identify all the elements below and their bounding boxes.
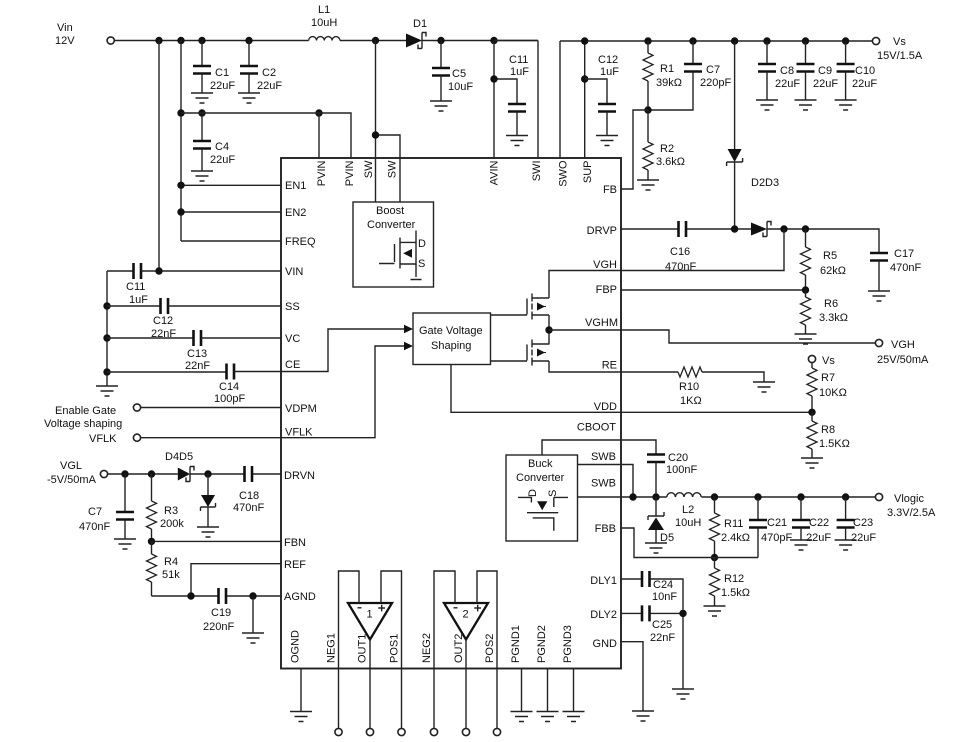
resistor R11 xyxy=(710,497,751,558)
wire FBN xyxy=(152,540,282,542)
svg-text:PGND3: PGND3 xyxy=(562,625,574,663)
node VGL label xyxy=(47,460,97,486)
terminal OUT2 xyxy=(462,728,469,735)
IC U1 main body xyxy=(281,158,621,669)
svg-text:Gate Voltage: Gate Voltage xyxy=(419,325,483,337)
svg-text:1.5KΩ: 1.5KΩ xyxy=(819,438,850,450)
wire OGND xyxy=(300,669,302,712)
svg-text:R1: R1 xyxy=(660,63,674,75)
svg-text:C17: C17 xyxy=(894,248,914,260)
wire VFLK to GVS xyxy=(281,346,404,438)
svg-text:CBOOT: CBOOT xyxy=(577,422,616,434)
svg-text:VGHM: VGHM xyxy=(585,317,618,329)
svg-text:C11: C11 xyxy=(509,54,528,66)
capacitor C24 xyxy=(642,571,677,603)
svg-text:R12: R12 xyxy=(724,573,744,585)
wire GVS gate1 xyxy=(491,314,528,316)
pin labels right edge xyxy=(577,184,618,650)
ground C11 top xyxy=(506,136,528,146)
ground C10 xyxy=(835,100,857,110)
wire DLY1 xyxy=(621,579,683,606)
wire VGHM row xyxy=(549,329,621,331)
svg-text:22uF: 22uF xyxy=(806,532,831,544)
terminal Vs xyxy=(872,36,923,62)
svg-text:39kΩ: 39kΩ xyxy=(656,77,682,89)
svg-text:C7: C7 xyxy=(706,64,720,76)
node FB divider junction xyxy=(644,106,651,113)
svg-text:470nF: 470nF xyxy=(79,521,110,533)
svg-text:DLY1: DLY1 xyxy=(590,575,617,587)
terminal NEG1 xyxy=(335,728,342,735)
resistor R6 xyxy=(801,290,849,334)
resistor R2 xyxy=(643,110,685,180)
ground DLY xyxy=(672,689,694,699)
node AVIN junction xyxy=(490,75,497,82)
svg-text:100pF: 100pF xyxy=(214,393,245,405)
svg-text:C20: C20 xyxy=(668,452,688,464)
svg-text:10nF: 10nF xyxy=(652,591,677,603)
terminal VDPM xyxy=(133,404,140,411)
wire POS2 xyxy=(477,571,497,728)
svg-text:R7: R7 xyxy=(821,372,835,384)
capacitor C25 xyxy=(642,605,675,644)
block Boost Converter box xyxy=(353,202,434,287)
ground C7 xyxy=(114,539,136,549)
svg-text:VGL: VGL xyxy=(60,460,82,472)
transistor Q2 lower xyxy=(527,340,549,366)
svg-text:SUP: SUP xyxy=(582,161,594,184)
capacitor C7 220pF xyxy=(648,41,731,110)
svg-text:C12: C12 xyxy=(598,54,618,66)
svg-text:10uH: 10uH xyxy=(311,17,337,29)
wire PGND1 xyxy=(521,669,523,712)
node VGHM junction xyxy=(545,326,552,333)
wire DLY2 xyxy=(621,606,683,689)
diode D1 xyxy=(406,18,427,49)
capacitor C4 xyxy=(193,113,235,171)
node bus junctions xyxy=(103,302,110,375)
op-amp A1 xyxy=(348,603,392,640)
ground PGND2 xyxy=(537,712,559,722)
diode D5 buck xyxy=(648,497,674,544)
svg-text:3.3V/2.5A: 3.3V/2.5A xyxy=(887,507,936,519)
ground R10 xyxy=(753,382,775,392)
capacitor C20 xyxy=(647,452,697,497)
wire VGH to DRVP xyxy=(621,229,784,271)
ground C4 xyxy=(191,171,213,181)
capacitor C18 xyxy=(233,466,264,514)
svg-text:SWB: SWB xyxy=(591,478,616,490)
wire CBOOT xyxy=(542,440,656,455)
node SW junction xyxy=(372,131,379,138)
svg-text:1: 1 xyxy=(367,609,373,621)
terminal Vin xyxy=(107,37,114,44)
wire SUP riser xyxy=(584,41,586,158)
capacitor C21 xyxy=(749,497,792,558)
svg-text:22uF: 22uF xyxy=(210,80,235,92)
svg-text:22uF: 22uF xyxy=(813,78,838,90)
svg-text:SWO: SWO xyxy=(558,160,570,187)
terminal VGL xyxy=(100,470,107,477)
terminal VGH output xyxy=(875,339,929,366)
svg-text:R4: R4 xyxy=(164,556,178,568)
svg-text:D: D xyxy=(527,489,539,497)
node Vlogic rail junctions xyxy=(711,493,850,500)
wire SWB1 xyxy=(578,465,634,498)
svg-text:S: S xyxy=(418,258,425,270)
wire GND pin xyxy=(621,642,643,711)
ground R12 xyxy=(704,606,726,616)
svg-text:C24: C24 xyxy=(653,579,673,591)
wire FREQ xyxy=(181,240,281,242)
terminal OUT1 xyxy=(366,728,373,735)
capacitor C23 xyxy=(837,497,877,544)
diode D2 xyxy=(727,41,780,229)
op-amp A2 xyxy=(444,603,488,640)
wire POS1 xyxy=(381,571,402,728)
node EN2 junction xyxy=(177,208,184,215)
wire Vin rail top xyxy=(115,40,538,42)
wire AVIN riser xyxy=(493,41,495,159)
terminal POS1 xyxy=(398,728,405,735)
svg-text:EN1: EN1 xyxy=(285,180,306,192)
node AGND junctions xyxy=(187,592,256,599)
capacitor C14 100pF CE xyxy=(107,364,281,406)
svg-text:100nF: 100nF xyxy=(666,464,697,476)
svg-text:SWB: SWB xyxy=(591,451,616,463)
wire VFLK xyxy=(141,437,281,439)
svg-text:OUT2: OUT2 xyxy=(453,634,465,663)
svg-text:OUT1: OUT1 xyxy=(357,634,369,663)
svg-text:C2: C2 xyxy=(262,67,276,79)
resistor R4 xyxy=(147,541,181,596)
resistor R12 xyxy=(710,558,751,607)
node junction rail dots xyxy=(155,37,497,44)
diode D4 xyxy=(165,451,194,482)
node PVIN row junctions xyxy=(177,109,322,116)
svg-text:R5: R5 xyxy=(823,250,837,262)
svg-text:Vs: Vs xyxy=(893,36,906,48)
svg-text:3.6kΩ: 3.6kΩ xyxy=(656,156,685,168)
svg-text:C12: C12 xyxy=(153,315,173,327)
svg-text:D2D3: D2D3 xyxy=(751,177,779,189)
svg-text:1uF: 1uF xyxy=(600,66,619,78)
svg-text:C9: C9 xyxy=(818,65,832,77)
svg-text:C8: C8 xyxy=(780,65,794,77)
wire SWI riser xyxy=(494,41,538,159)
svg-text:C19: C19 xyxy=(211,607,231,619)
resistor R7 xyxy=(807,363,847,412)
svg-text:22nF: 22nF xyxy=(650,632,675,644)
svg-text:AGND: AGND xyxy=(284,591,316,603)
wire SWB2 rail xyxy=(578,496,876,498)
svg-text:DRVN: DRVN xyxy=(284,470,315,482)
diode D3 xyxy=(751,222,771,237)
ground PGND3 xyxy=(563,712,585,722)
terminal VFLK xyxy=(133,434,140,441)
svg-text:25V/50mA: 25V/50mA xyxy=(877,354,929,366)
svg-text:SS: SS xyxy=(285,301,300,313)
svg-text:1KΩ: 1KΩ xyxy=(680,395,702,407)
svg-text:R10: R10 xyxy=(679,381,699,393)
node DRVP junctions xyxy=(731,225,809,232)
svg-text:22uF: 22uF xyxy=(851,532,876,544)
svg-text:22nF: 22nF xyxy=(185,360,210,372)
capacitor C8 xyxy=(758,41,800,100)
svg-text:FBN: FBN xyxy=(284,537,306,549)
wire REF xyxy=(191,564,281,596)
svg-text:C11: C11 xyxy=(126,281,145,293)
svg-text:PVIN: PVIN xyxy=(316,160,328,186)
diode D5 left xyxy=(201,474,216,527)
resistor R5 xyxy=(801,229,846,290)
svg-text:22uF: 22uF xyxy=(852,78,877,90)
svg-text:22uF: 22uF xyxy=(775,78,800,90)
svg-text:C25: C25 xyxy=(652,619,672,631)
ground PGND1 xyxy=(511,712,533,722)
resistor R3 xyxy=(147,474,185,541)
svg-text:SWI: SWI xyxy=(531,161,543,182)
svg-text:FB: FB xyxy=(603,184,617,196)
ground R6 xyxy=(795,334,817,344)
node VDPM text xyxy=(44,405,122,430)
svg-text:10KΩ: 10KΩ xyxy=(819,387,847,399)
capacitor C7 470nF xyxy=(79,474,134,539)
svg-text:15V/1.5A: 15V/1.5A xyxy=(877,50,923,62)
capacitor C1 xyxy=(193,41,235,94)
terminal Vlogic xyxy=(875,493,936,519)
node SWB junctions xyxy=(629,493,659,500)
svg-text:Converter: Converter xyxy=(516,472,565,484)
wire VGHM node xyxy=(548,315,550,345)
svg-text:12V: 12V xyxy=(55,35,75,47)
node VFLK text xyxy=(89,433,117,445)
svg-text:VC: VC xyxy=(285,333,300,345)
svg-text:DLY2: DLY2 xyxy=(590,609,617,621)
svg-text:POS1: POS1 xyxy=(389,634,401,663)
svg-text:C23: C23 xyxy=(853,517,873,529)
capacitor C12 22nF SS xyxy=(107,298,281,340)
svg-text:D4D5: D4D5 xyxy=(165,451,193,463)
ground C12 top xyxy=(596,136,618,146)
svg-text:FBP: FBP xyxy=(596,284,617,296)
svg-text:R2: R2 xyxy=(660,143,674,155)
capacitor C9 xyxy=(797,41,839,100)
resistor R1 xyxy=(643,41,682,110)
wire decoupling bus xyxy=(106,271,108,386)
svg-text:3.3kΩ: 3.3kΩ xyxy=(819,312,848,324)
svg-text:C1: C1 xyxy=(215,67,229,79)
svg-text:FREQ: FREQ xyxy=(285,236,316,248)
ground D5 left xyxy=(197,527,219,537)
capacitor C17 xyxy=(870,248,921,291)
capacitor C19 xyxy=(203,588,234,633)
svg-text:51k: 51k xyxy=(162,569,180,581)
node rail2 junctions xyxy=(581,37,849,44)
svg-text:C14: C14 xyxy=(219,381,239,393)
ground R2 xyxy=(637,180,659,190)
svg-text:NEG1: NEG1 xyxy=(326,633,338,663)
svg-text:C13: C13 xyxy=(187,348,207,360)
wire EN2 xyxy=(181,211,281,213)
svg-text:22uF: 22uF xyxy=(257,80,282,92)
wire FBP row xyxy=(621,289,806,291)
capacitor C22 xyxy=(792,497,831,544)
capacitor C13 22nF VC xyxy=(107,330,281,372)
svg-text:200k: 200k xyxy=(160,518,184,530)
ground C1 xyxy=(191,93,213,103)
svg-text:470nF: 470nF xyxy=(233,502,264,514)
capacitor C5 xyxy=(432,41,473,102)
svg-text:VGH: VGH xyxy=(891,339,915,351)
node DRVN junctions xyxy=(121,470,211,477)
svg-text:C18: C18 xyxy=(239,490,259,502)
wire Q1 drain to VGH xyxy=(549,271,621,299)
transistor buck MOSFET xyxy=(518,489,568,531)
svg-text:220nF: 220nF xyxy=(203,621,234,633)
wire EN riser xyxy=(180,41,182,242)
svg-text:VDD: VDD xyxy=(594,401,617,413)
svg-text:L1: L1 xyxy=(318,4,330,16)
svg-text:VGH: VGH xyxy=(593,259,617,271)
wire NEG1 xyxy=(339,571,360,728)
svg-text:Buck: Buck xyxy=(528,458,553,470)
svg-text:C4: C4 xyxy=(215,141,229,153)
inductor L2 xyxy=(667,493,702,529)
svg-text:2: 2 xyxy=(463,609,469,621)
node FBP junction xyxy=(802,286,809,293)
svg-text:Vin: Vin xyxy=(57,22,73,34)
svg-text:GND: GND xyxy=(593,638,618,650)
svg-text:L2: L2 xyxy=(682,504,694,516)
svg-text:C7: C7 xyxy=(88,506,102,518)
node EN1 junction xyxy=(177,182,184,189)
ground GND pin xyxy=(632,711,654,721)
terminal POS2 xyxy=(493,728,500,735)
ground C8 xyxy=(756,100,778,110)
node FBB junction xyxy=(711,554,718,561)
svg-text:SW: SW xyxy=(363,160,375,178)
svg-text:EN2: EN2 xyxy=(285,207,306,219)
svg-text:1uF: 1uF xyxy=(510,66,529,78)
svg-text:R11: R11 xyxy=(724,518,743,530)
svg-text:R3: R3 xyxy=(164,505,178,517)
block Gate Voltage Shaping box xyxy=(413,313,491,365)
svg-text:Boost: Boost xyxy=(376,205,404,217)
wire VDPM xyxy=(141,407,281,409)
svg-text:R6: R6 xyxy=(824,298,838,310)
wire DRVP row xyxy=(621,229,879,253)
wire PVIN row xyxy=(181,113,351,158)
svg-text:C10: C10 xyxy=(855,65,875,77)
svg-text:Voltage shaping: Voltage shaping xyxy=(44,418,122,430)
terminal Vs sense xyxy=(808,355,835,367)
svg-text:C22: C22 xyxy=(809,517,829,529)
svg-text:VIN: VIN xyxy=(285,266,303,278)
wire VDD row xyxy=(621,411,812,413)
svg-text:REF: REF xyxy=(284,559,306,571)
pin labels top edge xyxy=(316,160,594,187)
wire NEG2 xyxy=(434,571,455,728)
svg-text:2.4kΩ: 2.4kΩ xyxy=(721,532,750,544)
wire FBB xyxy=(621,528,758,558)
node VDD junction xyxy=(808,409,815,416)
resistor R8 xyxy=(807,412,850,458)
ground C2 xyxy=(238,93,260,103)
pin labels left edge xyxy=(284,180,317,603)
ground bus xyxy=(96,386,118,396)
svg-text:470nF: 470nF xyxy=(890,262,921,274)
node FBN junction xyxy=(148,538,155,545)
inductor L1 xyxy=(309,4,340,41)
svg-text:10uF: 10uF xyxy=(448,81,473,93)
wire AGND row xyxy=(152,595,282,597)
svg-text:1.5kΩ: 1.5kΩ xyxy=(721,587,750,599)
wire GVS gate2 xyxy=(491,360,528,362)
svg-text:POS2: POS2 xyxy=(484,634,496,663)
capacitor C11 top xyxy=(494,54,529,136)
svg-text:VFLK: VFLK xyxy=(89,433,117,445)
svg-text:RE: RE xyxy=(602,360,617,372)
wire Vs rail top xyxy=(560,40,872,42)
wire FB link xyxy=(621,110,648,189)
svg-text:S: S xyxy=(547,490,559,497)
wire GVS to VDD xyxy=(451,365,621,413)
svg-text:10uH: 10uH xyxy=(675,517,701,529)
svg-text:FBB: FBB xyxy=(595,523,616,535)
node VIN junction xyxy=(155,267,162,274)
svg-text:1uF: 1uF xyxy=(129,294,148,306)
svg-text:R8: R8 xyxy=(821,424,835,436)
capacitor C2 xyxy=(240,41,282,94)
transistor boost MOSFET xyxy=(379,231,426,280)
svg-text:Enable Gate: Enable Gate xyxy=(55,405,116,417)
pin labels bottom edge xyxy=(290,625,575,663)
wire RE row xyxy=(621,372,764,382)
svg-text:62kΩ: 62kΩ xyxy=(820,265,846,277)
svg-text:PGND2: PGND2 xyxy=(536,625,548,663)
ground AGND xyxy=(242,633,264,643)
capacitor C16 xyxy=(665,221,696,273)
node SUP-C12 junction xyxy=(581,75,588,82)
capacitor C10 xyxy=(837,41,878,100)
ground C22 xyxy=(790,540,812,550)
ground C9 xyxy=(795,100,817,110)
wire VIN riser xyxy=(158,41,160,272)
svg-text:DRVP: DRVP xyxy=(587,225,617,237)
ground R8 xyxy=(801,458,823,468)
svg-text:PVIN: PVIN xyxy=(344,160,356,186)
svg-text:470pF: 470pF xyxy=(761,532,792,544)
wire VGHM output xyxy=(621,330,875,343)
svg-text:PGND1: PGND1 xyxy=(510,625,522,663)
svg-text:Converter: Converter xyxy=(367,219,416,231)
capacitor C11 1uF VIN xyxy=(107,263,281,306)
svg-text:C16: C16 xyxy=(670,246,690,258)
svg-text:VDPM: VDPM xyxy=(285,403,317,415)
svg-text:AVIN: AVIN xyxy=(489,160,501,185)
wire CE to GVS xyxy=(281,329,404,372)
terminal NEG2 xyxy=(430,728,437,735)
wire EN1 xyxy=(181,184,281,186)
svg-text:D1: D1 xyxy=(413,18,427,30)
svg-text:D5: D5 xyxy=(660,532,674,544)
wire PGND2 xyxy=(547,669,549,712)
capacitor C12 top xyxy=(585,54,620,136)
wire SW risers xyxy=(376,41,401,203)
ground C5 xyxy=(430,101,452,111)
svg-text:Vlogic: Vlogic xyxy=(894,493,924,505)
